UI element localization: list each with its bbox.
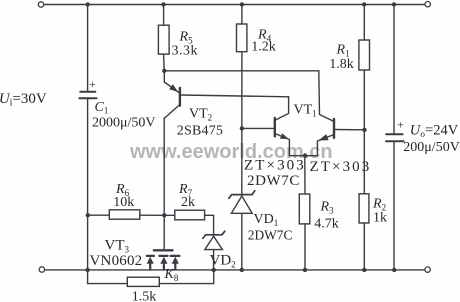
wire R7 to VD2 [205, 215, 214, 234]
wire R4 top lead [241, 5, 243, 25]
svg-text:VT1: VT1 [294, 102, 317, 118]
wire C1 branch bottom [87, 99, 89, 270]
wire 1.5k bypass loop [88, 270, 128, 284]
wire VT1 left base [242, 127, 275, 129]
wire VT1 left collector [275, 97, 289, 121]
svg-text:VD2: VD2 [210, 253, 236, 270]
node dot R4 top [240, 2, 244, 6]
svg-text:2k: 2k [181, 195, 195, 210]
svg-text:VD1: VD1 [254, 212, 279, 228]
svg-text:4.7k: 4.7k [314, 217, 339, 232]
wire R1 top lead [363, 5, 365, 41]
capacitor C1 [79, 92, 96, 98]
svg-text:VN0602: VN0602 [90, 253, 143, 269]
wire R6 right lead [140, 214, 164, 216]
wire top rail [44, 4, 425, 6]
node dot R6 R7 junction [162, 213, 166, 217]
resistor R2 1k [359, 194, 369, 223]
diode zener VD2 [203, 231, 225, 249]
terminal output top [425, 1, 430, 6]
svg-text:R3: R3 [320, 200, 335, 216]
node dot R1 top [362, 2, 366, 6]
node dot bottom VD1 [240, 268, 244, 272]
svg-text:Ui=30V: Ui=30V [0, 91, 47, 109]
node dot R5 top [161, 2, 165, 6]
svg-text:2DW7C: 2DW7C [248, 228, 293, 243]
resistor R1 1.8k [359, 40, 370, 70]
wire VT2 collector down / VT3 gate lead [163, 118, 165, 249]
terminal input bottom [39, 267, 44, 272]
svg-text:C1: C1 [95, 100, 109, 116]
wire 1.5k right loop [159, 270, 213, 284]
svg-text:2SB475: 2SB475 [177, 124, 223, 139]
wire node to VT1 right collector [164, 71, 333, 122]
wire VD1 to bottom rail [241, 213, 243, 270]
wire bottom rail [45, 269, 425, 271]
svg-text:3.3k: 3.3k [172, 44, 199, 59]
terminal input top [38, 2, 43, 7]
wire R5 bottom lead [163, 54, 166, 71]
svg-text:200μ/50V: 200μ/50V [403, 140, 460, 155]
node dot C1 top [86, 2, 90, 6]
wire R1 to R2 [363, 70, 365, 194]
wire R4 bottom to VD1 [241, 52, 243, 195]
node dot bottom R2 [362, 268, 366, 272]
wire output cap top [393, 5, 395, 134]
svg-text:VT2: VT2 [189, 107, 212, 123]
resistor R3 4.7k [299, 194, 310, 224]
node dot bottom R3 [303, 268, 307, 272]
transistor Q VT1 right [305, 119, 334, 156]
svg-text:2DW7C: 2DW7C [247, 173, 300, 189]
wire emitter node to R3 [304, 156, 306, 194]
node dot cap top [392, 2, 396, 6]
wire output cap bottom [393, 142, 395, 270]
resistor 1.5k [127, 277, 159, 286]
node dot R5 bottom [162, 69, 166, 73]
svg-text:2000μ/50V: 2000μ/50V [92, 115, 156, 130]
resistor R7 2k [175, 210, 205, 220]
wire R7 left lead [164, 214, 175, 216]
resistor R6 10k [109, 210, 140, 219]
transistor VT3 mosfet gate plate [154, 249, 173, 251]
wire R3 to bottom rail [304, 224, 306, 270]
svg-text:1.2k: 1.2k [251, 40, 275, 55]
svg-text:1k: 1k [373, 210, 387, 225]
svg-text:1.8k: 1.8k [329, 57, 354, 72]
terminal output bottom [425, 267, 430, 272]
svg-text:ZT×303: ZT×303 [310, 159, 372, 175]
svg-text:+: + [89, 77, 96, 91]
node dot bottom cap [392, 268, 396, 272]
svg-text:10k: 10k [113, 195, 134, 210]
wire R2 to bottom rail [363, 223, 365, 270]
wire VT1 right base [334, 129, 364, 131]
diode zener VD1 [229, 191, 255, 214]
transistor Q VT2 [164, 71, 180, 119]
transistor VT3 source arrows [147, 257, 179, 264]
wire C1 branch top [87, 5, 89, 92]
node dot bottom VD2 [212, 268, 216, 272]
svg-text:ZT×303: ZT×303 [244, 158, 306, 174]
resistor R5 3.3k [158, 25, 169, 54]
transistor Q VT1 left [275, 118, 305, 156]
transistor VT3 channel bars [147, 255, 180, 257]
wire VT2 base line [181, 95, 289, 97]
svg-text:Uo=24V: Uo=24V [410, 123, 459, 141]
wire VD2 to bottom rail [213, 250, 215, 270]
wire R6 left lead [88, 214, 110, 216]
node dot VT1 left base [240, 126, 244, 130]
wire R5 top lead [163, 5, 165, 26]
node dot bottom C1 [85, 268, 89, 272]
node dot emitter [303, 153, 307, 157]
svg-text:1.5k: 1.5k [132, 289, 157, 302]
node dot R6 left [86, 213, 90, 217]
resistor R4 1.2k [237, 24, 247, 52]
svg-text:+: + [397, 117, 404, 131]
node dot VT1 right base [362, 128, 366, 132]
capacitor output 200u [386, 134, 404, 141]
